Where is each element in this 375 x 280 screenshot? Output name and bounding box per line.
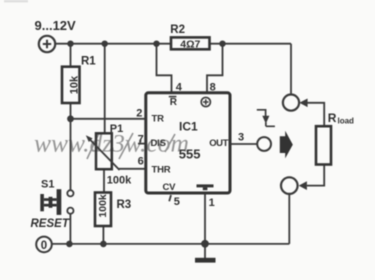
svg-text:S1: S1 xyxy=(41,179,54,191)
terminal 0 xyxy=(36,237,52,253)
svg-text:10k: 10k xyxy=(69,75,81,94)
watermark www.dz3w.com xyxy=(34,129,189,160)
resistor R3 xyxy=(95,193,111,227)
output terminal lower xyxy=(281,177,298,194)
falling edge symbol xyxy=(257,110,275,127)
svg-text:TR: TR xyxy=(152,113,165,124)
wire ground symbol stem xyxy=(204,244,206,258)
potentiometer P1 xyxy=(86,133,120,170)
svg-text:R2: R2 xyxy=(170,24,185,36)
svg-text:8: 8 xyxy=(210,82,216,94)
svg-text:6: 6 xyxy=(138,156,144,168)
svg-text:3: 3 xyxy=(238,132,244,144)
resistor Rload xyxy=(316,126,331,164)
svg-text:0: 0 xyxy=(41,240,47,252)
svg-text:OUT: OUT xyxy=(209,138,228,149)
wire top-right down to output terminal xyxy=(290,44,292,95)
node junction R1/S1/pin2 xyxy=(67,115,74,122)
wire Rload bottom to lower terminal xyxy=(307,165,324,186)
svg-text:5: 5 xyxy=(174,196,180,208)
output terminal OUT circle xyxy=(257,137,271,151)
svg-text:R1: R1 xyxy=(81,56,96,68)
node junction P1 branch on Vcc rail xyxy=(102,41,108,47)
supply + inside IC xyxy=(201,97,210,106)
wire S1 lower contact to ground rail xyxy=(69,214,71,244)
switch S1 pushbutton xyxy=(40,189,61,215)
wire pin 7 DIS stub xyxy=(138,143,146,145)
resistor R1 xyxy=(62,67,80,103)
node junction S1 on ground rail xyxy=(66,241,73,248)
svg-text:100k: 100k xyxy=(107,174,132,186)
wire junction to S1 upper contact xyxy=(70,119,72,190)
svg-text:THR: THR xyxy=(152,165,171,176)
output terminal upper xyxy=(283,95,299,111)
svg-text:R3: R3 xyxy=(117,199,132,211)
wire R1 bottom lead xyxy=(70,103,72,119)
wire R3 bottom lead xyxy=(102,226,104,244)
block arrow (output) xyxy=(280,131,293,159)
node junction R2 left xyxy=(153,41,159,47)
arrowhead to lower terminal xyxy=(299,181,307,190)
wire pin 3 to output terminal xyxy=(230,143,257,145)
svg-text:DIS: DIS xyxy=(151,138,166,149)
svg-text:555: 555 xyxy=(179,146,201,161)
wire R2 left branch to pin 4 xyxy=(157,44,172,93)
wire upper terminal to Rload top xyxy=(307,103,324,126)
wire pin 5 stub xyxy=(169,195,171,201)
svg-text:100k: 100k xyxy=(97,194,109,218)
node junction pin1/ground on rail xyxy=(201,240,209,248)
ground symbol xyxy=(195,258,216,263)
node junction R1 top on Vcc rail xyxy=(67,41,73,47)
wire R2 right branch to pin 8 xyxy=(207,44,223,93)
svg-text:4: 4 xyxy=(176,82,183,94)
arrowhead to upper terminal xyxy=(299,99,307,108)
svg-text:R: R xyxy=(170,97,178,108)
svg-text:9...12V: 9...12V xyxy=(35,18,77,33)
resistor R2 xyxy=(171,37,210,49)
supply terminal + xyxy=(39,36,55,52)
svg-text:load: load xyxy=(338,117,355,126)
svg-text:R: R xyxy=(328,111,337,125)
wire R1 top lead xyxy=(70,44,72,67)
wire P1 wiper to pin 6 THR xyxy=(119,168,146,170)
switch S1 contact circles xyxy=(67,190,73,196)
ground glyph inside IC xyxy=(197,184,214,187)
wire pin 1 to ground rail xyxy=(204,193,206,244)
svg-text:IC1: IC1 xyxy=(179,120,198,134)
wire P1 bottom to R3 top xyxy=(103,169,105,192)
svg-text:1: 1 xyxy=(209,197,215,209)
op-amp/timer IC1 box xyxy=(146,93,230,193)
wire trigger to pin 2 xyxy=(71,118,146,120)
node junction R2 right xyxy=(219,41,225,47)
svg-text:4Ω7: 4Ω7 xyxy=(180,39,200,51)
svg-text:7: 7 xyxy=(138,134,144,146)
wire ground rail xyxy=(52,243,289,245)
node junction R3 on ground rail xyxy=(100,241,107,248)
svg-text:2: 2 xyxy=(136,108,142,120)
svg-text:P1: P1 xyxy=(110,123,123,135)
svg-text:RESET: RESET xyxy=(31,218,70,230)
svg-text:CV: CV xyxy=(163,182,177,193)
wire top rail Vcc xyxy=(55,43,291,45)
wire Vcc to P1 top xyxy=(104,44,106,134)
wire lower output terminal to ground rail xyxy=(288,194,290,244)
